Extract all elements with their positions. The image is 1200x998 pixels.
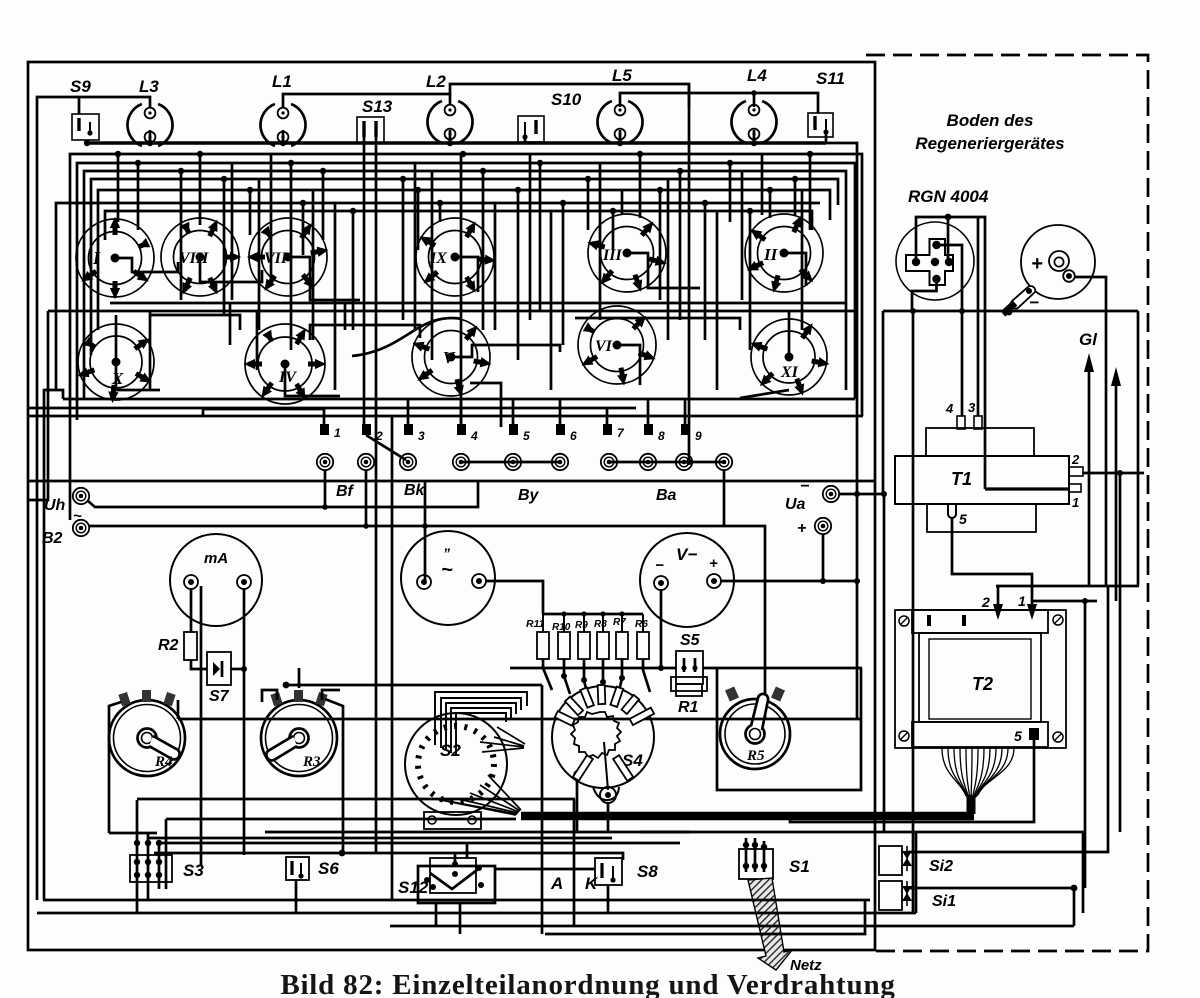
svg-text:S7: S7 xyxy=(209,688,230,705)
jack By c xyxy=(552,454,568,470)
svg-text:R6: R6 xyxy=(635,619,648,630)
svg-text:S1: S1 xyxy=(789,857,810,876)
svg-text:~: ~ xyxy=(441,559,453,581)
svg-text:5: 5 xyxy=(523,429,530,443)
wire y838 run xyxy=(148,837,612,840)
wire S12 drops xyxy=(435,903,438,926)
wire y819 run xyxy=(166,818,516,821)
svg-text:S5: S5 xyxy=(680,632,701,649)
svg-text:IV: IV xyxy=(278,369,297,386)
svg-text:3: 3 xyxy=(418,429,425,443)
svg-text:K: K xyxy=(585,874,599,893)
wire x392 long vertical xyxy=(391,416,394,900)
lamp L1 xyxy=(260,104,305,146)
resistor R8 xyxy=(597,632,609,659)
wire fuse feed y832 right xyxy=(640,832,1083,913)
svg-text:R11: R11 xyxy=(526,618,545,630)
svg-text:Ua: Ua xyxy=(785,496,806,513)
wire Uh run y507 xyxy=(88,481,478,507)
svg-text:VIII: VIII xyxy=(179,250,209,267)
wire Gl arrow 2 xyxy=(1111,367,1121,601)
svg-text:L5: L5 xyxy=(612,66,632,85)
resistor R6 xyxy=(637,632,649,659)
svg-text:Regeneriergerätes: Regeneriergerätes xyxy=(915,134,1064,153)
svg-text:Uh: Uh xyxy=(44,497,66,514)
svg-text:Bf: Bf xyxy=(336,483,355,500)
BOTTOM WIRES xyxy=(37,416,1074,934)
wire x883 drop xyxy=(882,311,885,494)
switch S3 xyxy=(130,800,204,913)
jack Bk xyxy=(358,454,374,470)
wire bus to right riser xyxy=(826,143,857,719)
jack Ua plus xyxy=(815,518,831,534)
svg-text:Boden des: Boden des xyxy=(947,111,1034,130)
Boden des Regeneriergerätes outline (dashed box) xyxy=(866,55,1148,951)
wire RGN top loop xyxy=(916,217,985,489)
meter ~ (AC) xyxy=(401,531,495,625)
terminal 1 xyxy=(320,424,329,435)
svg-text:−: − xyxy=(800,478,809,495)
MAIN THICK CABLE to T2 xyxy=(521,812,974,821)
wire L4 top junction xyxy=(753,93,756,107)
svg-text:Netz: Netz xyxy=(790,957,822,974)
switch S9 xyxy=(70,77,99,140)
wire bus y154 xyxy=(70,154,862,520)
lamp L4 xyxy=(731,101,776,143)
wire S5 long run y668 xyxy=(510,667,676,670)
fuse Si2 xyxy=(879,846,953,875)
wire S6 drop xyxy=(295,880,298,913)
svg-text:S12: S12 xyxy=(398,878,429,897)
svg-text:A: A xyxy=(550,874,563,893)
wire y926 xyxy=(390,925,1074,928)
wire y913 long xyxy=(37,912,916,915)
meter mA xyxy=(170,534,262,626)
T1 pin 5 xyxy=(948,504,956,518)
switch S7 xyxy=(207,652,231,705)
wire drop x425 xyxy=(424,481,427,582)
wire T1 internal xyxy=(985,487,1069,490)
T2 slot marks xyxy=(927,615,931,626)
wire mA left second drop xyxy=(200,586,203,866)
wire S8 drop xyxy=(607,885,610,913)
wire pin2 to jack3 diagonal xyxy=(366,435,406,460)
resistor R1 xyxy=(671,677,707,716)
wire row divider y416 xyxy=(28,415,863,418)
wire x916 drop xyxy=(915,832,918,913)
TRANSFORMER T1 xyxy=(895,400,1083,532)
S4 wiper circle xyxy=(600,787,616,803)
svg-text:L3: L3 xyxy=(139,77,159,96)
wire drop x574 xyxy=(573,799,576,926)
wire mA left to R2 xyxy=(190,589,193,632)
tube socket X xyxy=(77,324,154,402)
potentiometer R4 xyxy=(109,690,185,776)
svg-text:9: 9 xyxy=(695,429,702,443)
wire bus risers xyxy=(150,130,826,143)
svg-text:+: + xyxy=(797,520,806,537)
wire x1138 drop xyxy=(1137,311,1140,586)
svg-text:XI: XI xyxy=(780,364,799,381)
resistor R2 xyxy=(184,632,197,660)
svg-text:Si2: Si2 xyxy=(929,858,953,875)
wire S4 wiper drop xyxy=(607,803,610,832)
switch S6 xyxy=(286,857,339,880)
wire x1085 drop xyxy=(1084,601,1087,888)
wire curved into socket V xyxy=(352,318,462,356)
wire bus y179 xyxy=(91,179,838,355)
wire V minus drop xyxy=(660,590,663,668)
wire Si2 right run xyxy=(907,586,1108,852)
tube socket V xyxy=(412,318,491,397)
WIRING BUS BAND (top, nested loops) xyxy=(28,154,875,900)
svg-text:5: 5 xyxy=(959,511,967,527)
switch S5 xyxy=(676,632,703,684)
jack By b xyxy=(505,454,521,470)
svg-text:T2: T2 xyxy=(972,674,993,694)
potentiometer R5 xyxy=(720,686,790,769)
wire under lower sockets y399 xyxy=(44,390,63,900)
wire Bf drop xyxy=(324,470,327,507)
wire vertical drops from bus to sockets xyxy=(118,154,810,424)
svg-text:I: I xyxy=(92,248,101,268)
wire drop x724 xyxy=(723,470,726,526)
svg-text:1: 1 xyxy=(1018,593,1026,609)
wire y934 xyxy=(545,900,865,934)
svg-text:L2: L2 xyxy=(426,72,446,91)
wire Ua plus drop xyxy=(822,534,825,580)
svg-text:S8: S8 xyxy=(637,862,658,881)
wire T2 pin feeds xyxy=(981,586,1037,620)
tube socket IX xyxy=(416,218,495,296)
T1 pin 2 xyxy=(1069,467,1083,476)
svg-text:R9: R9 xyxy=(575,620,588,631)
resistor R9 xyxy=(578,632,590,659)
wire bus y211 xyxy=(105,211,812,240)
wire R3 left tab up xyxy=(262,690,277,702)
SELECTOR S4 xyxy=(552,685,654,832)
svg-text:+: + xyxy=(709,555,718,572)
jack Ba d xyxy=(716,454,732,470)
switch S1 xyxy=(739,838,810,879)
wire S4 left blade drop xyxy=(573,770,580,777)
wire Ua minus run xyxy=(839,494,884,832)
svg-text:4: 4 xyxy=(945,401,954,416)
wire Si1 right run xyxy=(907,887,1074,890)
wire S2 nested loops xyxy=(435,692,527,756)
terminal 6 xyxy=(556,424,565,435)
svg-text:S10: S10 xyxy=(551,90,582,109)
svg-text:6: 6 xyxy=(570,429,577,443)
svg-text:Si1: Si1 xyxy=(932,893,956,910)
wire S2 fan right xyxy=(436,727,525,815)
svg-text:RGN 4004: RGN 4004 xyxy=(908,187,989,206)
wire rectifier output xyxy=(1075,277,1106,586)
wire R2 to S7 xyxy=(191,660,207,669)
svg-text:R2: R2 xyxy=(158,637,179,654)
wire S12 top stubs xyxy=(466,843,469,858)
wire R5 mounting loop xyxy=(717,668,861,790)
wire Gl arrow 1 xyxy=(1084,353,1094,586)
svg-text:8: 8 xyxy=(658,429,665,443)
lamp bottom bus xyxy=(87,140,826,143)
tube socket VIII xyxy=(161,218,240,296)
wire drop x542 xyxy=(541,685,544,934)
wire mid y311 xyxy=(28,311,48,500)
svg-text:VII: VII xyxy=(264,250,288,267)
TUBE SOCKETS xyxy=(76,214,829,404)
svg-text:S6: S6 xyxy=(318,859,339,878)
T2 winding bundle xyxy=(942,748,1014,801)
wire S6 junction xyxy=(154,853,623,860)
svg-text:R10: R10 xyxy=(552,622,571,633)
svg-text:L1: L1 xyxy=(272,72,292,91)
tube socket I xyxy=(76,218,154,298)
wire y900 long xyxy=(43,899,870,902)
resistor R10 xyxy=(558,632,570,659)
lamp L5 xyxy=(597,101,642,143)
wire S9 to L3 top xyxy=(79,97,150,114)
terminal 9 xyxy=(681,424,690,435)
svg-text:−: − xyxy=(1029,293,1039,312)
wire inter-socket links xyxy=(115,253,806,427)
terminal 3 xyxy=(404,424,413,435)
rectifier minus lever xyxy=(1011,286,1035,309)
svg-text:Gl: Gl xyxy=(1079,330,1098,349)
svg-text:R1: R1 xyxy=(678,699,699,716)
TRANSFORMER T2 xyxy=(895,610,1066,748)
svg-text:II: II xyxy=(763,245,779,264)
resistor top bus xyxy=(543,613,643,616)
wire y843 xyxy=(159,842,680,845)
svg-text:5: 5 xyxy=(1014,728,1022,744)
svg-text:T1: T1 xyxy=(951,469,972,489)
svg-text:VI: VI xyxy=(595,338,613,355)
potentiometer R3 xyxy=(261,690,337,776)
S4 gear rotor xyxy=(571,712,621,758)
terminal 5 xyxy=(509,424,518,435)
terminal 4 xyxy=(457,424,466,435)
jack Bf xyxy=(317,454,333,470)
wire mid y303 xyxy=(110,302,845,305)
tube socket VII xyxy=(248,218,328,296)
svg-text:R7: R7 xyxy=(613,617,626,628)
resistor R7 xyxy=(616,632,628,659)
S4 blade contacts xyxy=(555,685,654,781)
wire Bk drop xyxy=(365,470,368,526)
svg-text:mA: mA xyxy=(204,550,228,567)
terminal 8 xyxy=(644,424,653,435)
wire RGN top pin to T1 pin4 xyxy=(937,245,963,416)
wire L5 top to S11 xyxy=(620,93,818,113)
wire y832 left segs xyxy=(109,832,157,835)
svg-text:S11: S11 xyxy=(816,69,845,88)
svg-text:S9: S9 xyxy=(70,77,91,96)
SELECTOR S2 xyxy=(405,713,507,829)
wire T1 pin2 right xyxy=(1083,472,1144,475)
svg-text:2: 2 xyxy=(981,594,990,610)
chassis outline (solid box) xyxy=(28,62,875,950)
wire resistor bottoms to S4 blades xyxy=(543,659,650,698)
T1 pin 1 xyxy=(1069,484,1081,492)
fuse Si1 xyxy=(879,881,956,910)
svg-text:2: 2 xyxy=(1071,452,1080,467)
wire bus y163 xyxy=(77,163,855,420)
wire drops to terminals xyxy=(203,399,685,424)
svg-text:−: − xyxy=(655,557,664,574)
RESISTOR BANK R11-R6 xyxy=(526,611,650,698)
S4 body with pointer bulge xyxy=(552,686,654,788)
wire RGN pin3 drop xyxy=(977,217,980,416)
wire bundle stub xyxy=(967,795,976,814)
wire R3 right tab down x343 xyxy=(325,699,343,853)
svg-text:L4: L4 xyxy=(747,66,767,85)
wire left riser from S9 down left edge xyxy=(37,97,79,900)
switch S13 xyxy=(357,97,393,143)
TERMINAL ROW 1-9 xyxy=(320,424,702,443)
wire gap drops between rows xyxy=(116,303,345,390)
lamp L2 xyxy=(427,101,472,143)
svg-text:4: 4 xyxy=(470,429,478,443)
S2 mounting bracket xyxy=(424,812,481,829)
wire L2 up and across to vertical drop xyxy=(450,84,689,107)
tube socket III xyxy=(587,214,667,292)
svg-text:S3: S3 xyxy=(183,861,204,880)
svg-text:Ba: Ba xyxy=(656,487,677,504)
tube socket XI xyxy=(750,319,829,396)
jack Uh xyxy=(73,488,89,504)
S4 pointer lever xyxy=(604,742,608,790)
wire S12 to S8 xyxy=(495,868,595,871)
wire junction dots on buses xyxy=(115,151,813,214)
wire S13 second drop xyxy=(375,137,378,853)
switch S8 xyxy=(595,858,658,885)
svg-text:1: 1 xyxy=(334,426,341,440)
wire bus y171 xyxy=(84,171,846,400)
svg-text:R5: R5 xyxy=(746,748,765,764)
wire L2 drop xyxy=(688,84,691,462)
wire row divider y408 xyxy=(28,407,636,410)
tube socket RGN 4004 xyxy=(896,187,989,300)
wire V plus to right xyxy=(721,580,860,583)
wire jack links xyxy=(461,461,560,464)
meter V xyxy=(640,533,734,627)
switch S11 xyxy=(808,69,845,137)
wire mA right terminal long drop xyxy=(243,589,246,855)
rectifier disc xyxy=(1003,225,1095,315)
svg-text:By: By xyxy=(518,487,540,504)
wire bus y190 xyxy=(98,190,830,330)
switch S12 xyxy=(398,853,495,903)
wire R4-R3 top link y719 xyxy=(177,700,180,719)
jack Ba a xyxy=(601,454,617,470)
terminal 7 xyxy=(603,424,612,435)
T1 pin 4 and 3 xyxy=(926,428,1034,456)
svg-text:+: + xyxy=(1031,253,1043,275)
wire y685 from R3 xyxy=(286,684,542,687)
wire x913 drop xyxy=(912,311,915,913)
svg-text:B2: B2 xyxy=(42,530,63,547)
jack Ba b xyxy=(640,454,656,470)
Netz cable xyxy=(748,878,822,974)
wire B2 run y526 xyxy=(89,526,765,720)
wire L1 to L2 top xyxy=(283,94,450,107)
jack Ba c xyxy=(676,454,692,470)
svg-text:Bk: Bk xyxy=(404,482,426,499)
tube socket II xyxy=(745,214,823,293)
jack B2 xyxy=(73,520,89,536)
lamp L3 xyxy=(127,104,172,146)
tube socket VI xyxy=(578,306,656,385)
jack Ua minus xyxy=(823,486,839,502)
wire AC right to resistor bank xyxy=(486,581,543,614)
svg-text:3: 3 xyxy=(968,400,976,415)
jack By a xyxy=(453,454,469,470)
wire jack row bottom divider y481 xyxy=(28,480,875,483)
wire y799 xyxy=(137,798,575,801)
wire T1 pin5 to T2 xyxy=(952,518,1032,601)
S2 body xyxy=(405,713,507,815)
svg-text:1: 1 xyxy=(1072,495,1079,510)
jack 3 xyxy=(400,454,416,470)
tube socket IV xyxy=(245,324,325,404)
svg-text:R3: R3 xyxy=(302,754,321,770)
wire T2 pin5 drop xyxy=(790,740,1034,822)
svg-text:R8: R8 xyxy=(594,619,607,630)
wire S13 drop to terminal 2 xyxy=(363,137,366,426)
T2 pin 5 xyxy=(1029,728,1039,740)
wire y586 link xyxy=(996,585,1139,588)
wire y311 long xyxy=(883,310,1138,313)
wire R3 right tab up to S2 loops xyxy=(322,690,340,700)
wire R4 left frame xyxy=(109,702,121,833)
svg-text:S13: S13 xyxy=(362,97,393,116)
wire R3 mid tab up xyxy=(298,668,301,688)
wire RGN bottom pin xyxy=(912,279,937,311)
wire extra socket-band drops xyxy=(232,154,802,390)
wire x1120 drop xyxy=(1119,473,1122,832)
T2 corner screws xyxy=(899,615,1063,742)
wire y601 link xyxy=(1032,600,1097,603)
svg-text:R4: R4 xyxy=(154,754,173,770)
resistor R11 xyxy=(537,632,549,659)
wire x1074 link xyxy=(1073,888,1076,926)
switch S10 xyxy=(518,90,582,142)
wire S7 to mA right drop xyxy=(231,668,244,671)
terminal 2 xyxy=(362,424,371,435)
svg-text:V−: V− xyxy=(676,545,697,564)
svg-text:X: X xyxy=(111,369,124,388)
wire bus y203 xyxy=(56,203,820,390)
